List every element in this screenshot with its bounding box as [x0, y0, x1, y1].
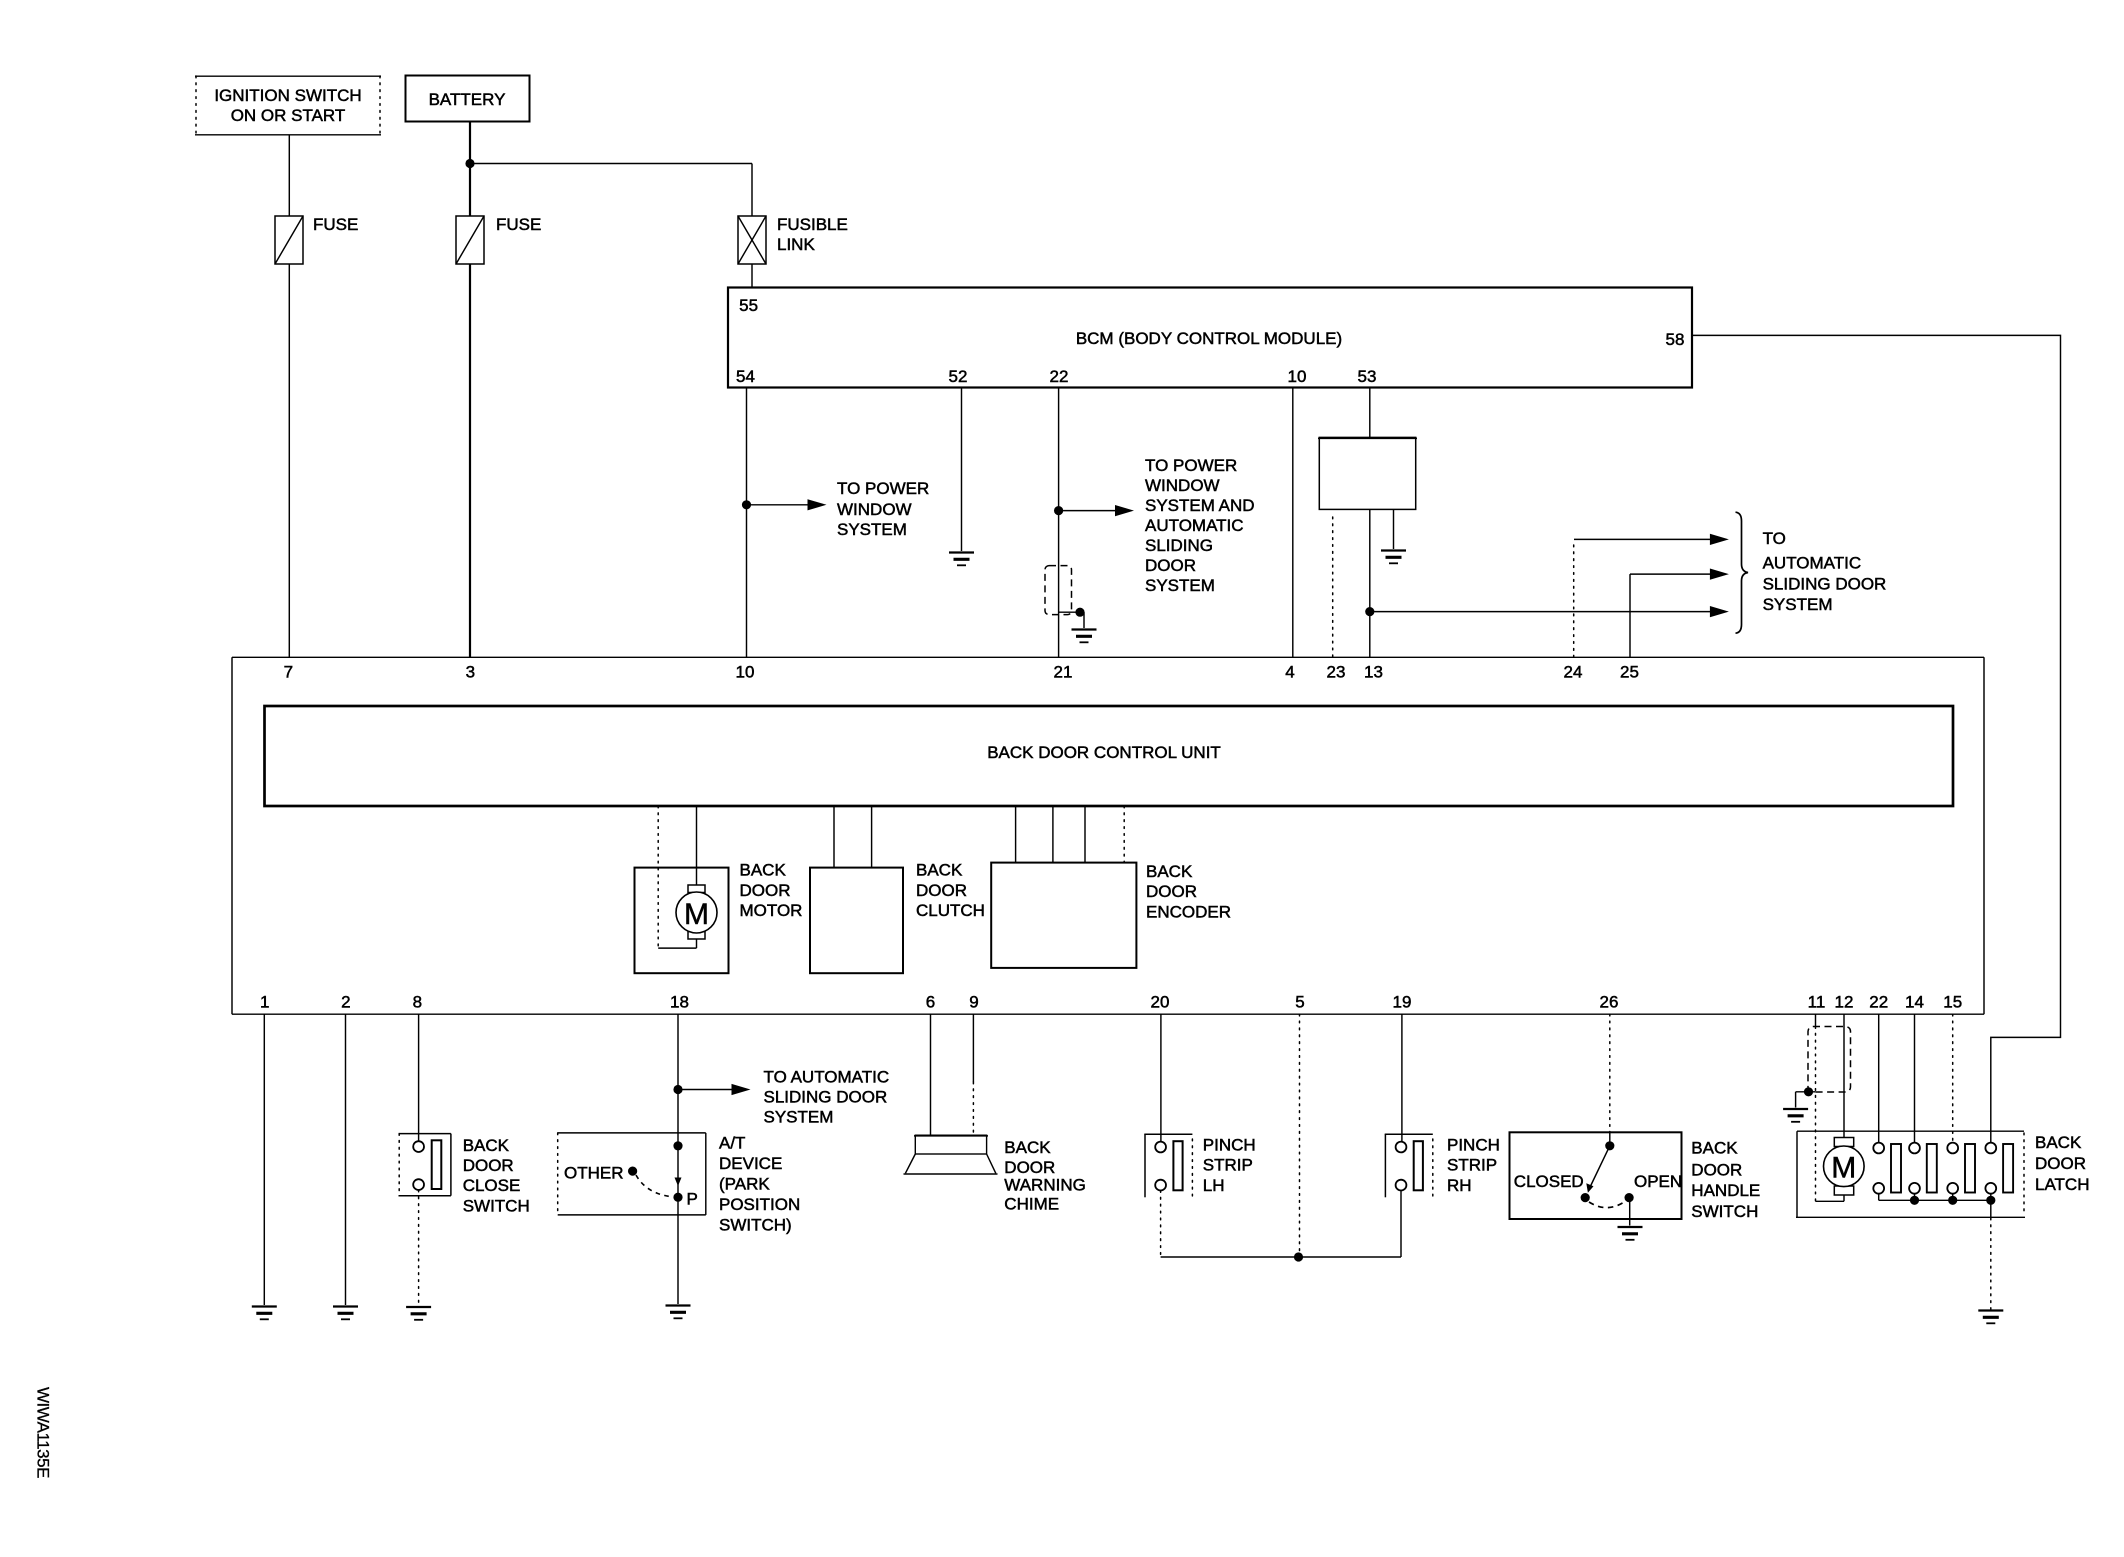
svg-text:DOOR: DOOR: [463, 1156, 514, 1175]
svg-text:WIWA1135E: WIWA1135E: [34, 1387, 53, 1478]
svg-text:18: 18: [670, 993, 689, 1012]
svg-text:SLIDING: SLIDING: [1145, 536, 1213, 555]
svg-text:BACK: BACK: [916, 861, 963, 880]
svg-text:26: 26: [1600, 993, 1619, 1012]
svg-text:DOOR: DOOR: [2035, 1154, 2086, 1173]
svg-text:AUTOMATIC: AUTOMATIC: [1145, 516, 1244, 535]
svg-text:BACK DOOR CONTROL UNIT: BACK DOOR CONTROL UNIT: [987, 743, 1221, 762]
svg-text:54: 54: [736, 367, 755, 386]
svg-text:TO: TO: [1763, 529, 1786, 548]
svg-text:(PARK: (PARK: [719, 1175, 770, 1194]
svg-text:4: 4: [1285, 663, 1294, 682]
svg-text:MOTOR: MOTOR: [740, 901, 803, 920]
svg-text:SYSTEM: SYSTEM: [764, 1108, 834, 1127]
svg-text:52: 52: [949, 367, 968, 386]
svg-text:OPEN: OPEN: [1634, 1172, 1682, 1191]
svg-text:BACK: BACK: [1004, 1138, 1051, 1157]
svg-text:BACK: BACK: [1691, 1139, 1738, 1158]
svg-text:SYSTEM: SYSTEM: [1763, 595, 1833, 614]
svg-text:POSITION: POSITION: [719, 1195, 800, 1214]
svg-text:M: M: [684, 898, 709, 931]
svg-text:WINDOW: WINDOW: [837, 500, 912, 519]
svg-text:2: 2: [341, 993, 350, 1012]
svg-text:TO POWER: TO POWER: [1145, 456, 1237, 475]
svg-text:55: 55: [739, 296, 758, 315]
svg-text:10: 10: [1288, 367, 1307, 386]
svg-text:HANDLE: HANDLE: [1691, 1181, 1760, 1200]
svg-text:WARNING: WARNING: [1004, 1176, 1086, 1195]
svg-text:13: 13: [1364, 663, 1383, 682]
svg-text:AUTOMATIC: AUTOMATIC: [1763, 554, 1862, 573]
svg-text:SYSTEM: SYSTEM: [1145, 576, 1215, 595]
svg-text:DOOR: DOOR: [1004, 1158, 1055, 1177]
svg-text:LINK: LINK: [777, 235, 815, 254]
svg-text:IGNITION SWITCH: IGNITION SWITCH: [214, 86, 361, 105]
svg-text:22: 22: [1050, 367, 1069, 386]
svg-text:10: 10: [736, 663, 755, 682]
svg-text:RH: RH: [1447, 1176, 1472, 1195]
svg-text:FUSIBLE: FUSIBLE: [777, 215, 848, 234]
svg-text:M: M: [1831, 1152, 1856, 1185]
svg-text:12: 12: [1835, 993, 1854, 1012]
svg-text:23: 23: [1327, 663, 1346, 682]
svg-text:DOOR: DOOR: [1691, 1160, 1742, 1179]
svg-text:DOOR: DOOR: [1145, 556, 1196, 575]
svg-text:ON OR START: ON OR START: [231, 106, 346, 125]
svg-text:19: 19: [1393, 993, 1412, 1012]
svg-text:LATCH: LATCH: [2035, 1175, 2089, 1194]
svg-text:SLIDING DOOR: SLIDING DOOR: [1763, 574, 1887, 593]
svg-text:53: 53: [1358, 367, 1377, 386]
svg-text:BATTERY: BATTERY: [429, 90, 506, 109]
svg-text:24: 24: [1564, 663, 1583, 682]
svg-text:21: 21: [1054, 663, 1073, 682]
svg-text:STRIP: STRIP: [1447, 1156, 1497, 1175]
svg-text:25: 25: [1620, 663, 1639, 682]
svg-text:ENCODER: ENCODER: [1146, 903, 1231, 922]
svg-text:15: 15: [1943, 993, 1962, 1012]
svg-text:BCM (BODY CONTROL MODULE): BCM (BODY CONTROL MODULE): [1076, 329, 1342, 348]
svg-text:58: 58: [1666, 330, 1685, 349]
svg-text:BACK: BACK: [463, 1136, 510, 1155]
svg-text:TO AUTOMATIC: TO AUTOMATIC: [764, 1068, 890, 1087]
svg-text:LH: LH: [1203, 1176, 1225, 1195]
svg-text:WINDOW: WINDOW: [1145, 476, 1220, 495]
svg-text:7: 7: [284, 663, 293, 682]
svg-text:11: 11: [1808, 993, 1826, 1012]
svg-text:3: 3: [466, 663, 475, 682]
svg-text:22: 22: [1869, 993, 1888, 1012]
svg-text:DOOR: DOOR: [916, 881, 967, 900]
svg-text:CLOSED: CLOSED: [1514, 1172, 1584, 1191]
svg-text:DEVICE: DEVICE: [719, 1154, 782, 1173]
svg-text:6: 6: [926, 993, 935, 1012]
svg-text:FUSE: FUSE: [313, 215, 358, 234]
svg-text:BACK: BACK: [1146, 862, 1193, 881]
svg-text:8: 8: [413, 993, 422, 1012]
svg-text:TO POWER: TO POWER: [837, 479, 929, 498]
svg-text:STRIP: STRIP: [1203, 1156, 1253, 1175]
svg-text:CLOSE: CLOSE: [463, 1176, 521, 1195]
svg-text:SWITCH): SWITCH): [719, 1216, 792, 1235]
svg-text:BACK: BACK: [2035, 1133, 2082, 1152]
svg-text:SWITCH: SWITCH: [1691, 1202, 1758, 1221]
svg-text:SYSTEM AND: SYSTEM AND: [1145, 496, 1255, 515]
svg-text:PINCH: PINCH: [1203, 1136, 1256, 1155]
svg-text:SYSTEM: SYSTEM: [837, 520, 907, 539]
svg-text:DOOR: DOOR: [1146, 882, 1197, 901]
svg-text:OTHER: OTHER: [564, 1164, 624, 1183]
svg-text:PINCH: PINCH: [1447, 1136, 1500, 1155]
svg-text:DOOR: DOOR: [740, 881, 791, 900]
svg-text:CHIME: CHIME: [1004, 1195, 1059, 1214]
svg-text:CLUTCH: CLUTCH: [916, 901, 985, 920]
svg-text:9: 9: [969, 993, 978, 1012]
svg-text:FUSE: FUSE: [496, 215, 541, 234]
svg-text:1: 1: [260, 993, 269, 1012]
svg-text:20: 20: [1151, 993, 1170, 1012]
svg-text:5: 5: [1295, 993, 1304, 1012]
svg-text:SWITCH: SWITCH: [463, 1197, 530, 1216]
svg-text:14: 14: [1905, 993, 1924, 1012]
svg-text:SLIDING DOOR: SLIDING DOOR: [764, 1088, 888, 1107]
svg-text:BACK: BACK: [740, 861, 787, 880]
svg-text:A/T: A/T: [719, 1134, 745, 1153]
svg-text:P: P: [687, 1190, 698, 1209]
